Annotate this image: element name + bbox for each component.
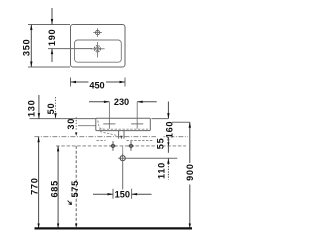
rim band line <box>78 125 96 127</box>
dimension 685 arrow down <box>57 224 59 228</box>
hidden bowl outline (front view) <box>98 121 104 130</box>
svg-text:450: 450 <box>89 80 104 90</box>
dimension 230 line left <box>89 101 109 103</box>
svg-text:55: 55 <box>156 138 166 150</box>
dimension 160 upper arrow line <box>167 102 169 119</box>
drain stub left <box>118 131 120 139</box>
fixing hole extension line right <box>136 102 138 129</box>
svg-text:190: 190 <box>47 29 57 46</box>
svg-text:160: 160 <box>165 121 175 138</box>
dimension 230 arrow right <box>104 101 110 103</box>
svg-text:50: 50 <box>46 103 56 115</box>
dimension 110 arrow up line <box>167 158 169 179</box>
dimension 575 slant arrow <box>68 201 72 205</box>
fixing cross right <box>131 123 143 125</box>
dimension 450 right extension bar <box>124 78 126 87</box>
dimension 450 arrow right <box>120 81 126 83</box>
dimension 350 arrow up <box>30 25 32 31</box>
dimension 55 arrow up <box>167 137 169 141</box>
dimension 150 line left <box>93 193 113 195</box>
extension line bottom edge (plan view) <box>28 66 70 68</box>
dimension 450 line <box>71 81 89 83</box>
dimension 770 arrow down <box>37 224 39 228</box>
svg-text:685: 685 <box>50 180 60 197</box>
dimension 450 arrow left <box>71 81 77 83</box>
dimension 130 line <box>38 95 40 119</box>
dimension 150 arrow left <box>132 193 138 195</box>
900 reference line <box>170 121 190 123</box>
svg-text:770: 770 <box>30 177 40 194</box>
outlet circle <box>120 156 125 161</box>
overflow level dash-dot line <box>34 136 188 138</box>
dimension 575 dashed line <box>75 146 77 228</box>
dimension 55 label <box>156 135 163 149</box>
extension line top edge (plan view) <box>28 24 70 26</box>
svg-text:900: 900 <box>185 163 195 180</box>
dimension 190 arrow down <box>51 19 53 25</box>
rim extension line right (front view) <box>152 118 169 120</box>
dimension 55 line <box>167 137 169 153</box>
extension line drain centre (plan view) <box>48 48 92 50</box>
dimension 150 left bar <box>112 189 114 199</box>
dimension 55 arrow down <box>167 142 169 146</box>
dimension 160 arrow down <box>167 113 169 119</box>
svg-text:30: 30 <box>66 118 76 130</box>
faucet hole <box>96 30 100 34</box>
dimension 190 lower arrow line <box>51 49 53 62</box>
dimension 50 arrow down <box>54 113 56 119</box>
basin inner bowl (plan view) <box>75 40 122 62</box>
dimension 230 arrow left <box>137 101 143 103</box>
dimension 190 arrow up <box>51 49 53 55</box>
svg-text:230: 230 <box>114 97 129 107</box>
bolt level dashed line <box>56 145 186 147</box>
outlet axis line upper <box>122 146 124 155</box>
drain stub right <box>123 131 125 139</box>
dimension 150 label <box>115 190 131 199</box>
dimension 575 arrow down <box>75 224 77 228</box>
drain outlet arrow <box>120 136 122 140</box>
dimension 160 label <box>165 121 172 136</box>
dimension 30 arrow down <box>75 132 77 136</box>
dimension 50 line <box>55 97 57 119</box>
dimension 900 arrow down <box>189 224 191 228</box>
basin outline (front view) <box>96 118 151 130</box>
dimension 150 arrow right <box>108 193 114 195</box>
dimension 110 arrow up <box>167 158 169 164</box>
hidden bowl bottom dashed line <box>99 128 150 130</box>
outlet axis line down <box>122 163 124 190</box>
dimension 900 line <box>189 122 191 163</box>
hidden underside dashed line left <box>97 140 106 142</box>
hidden underside dashed line right <box>127 140 153 142</box>
drain hole <box>94 46 100 52</box>
dimension 150 line right <box>132 193 152 195</box>
dimension 770 line <box>38 137 40 228</box>
dimension 130 arrow down <box>38 113 40 119</box>
outlet level line right <box>127 157 177 159</box>
dimension 685 line <box>57 146 59 228</box>
bolt cross right <box>129 144 132 147</box>
dimension 350 line <box>30 25 32 68</box>
svg-text:110: 110 <box>157 162 167 179</box>
dimension 450 left extension bar <box>70 78 72 87</box>
dimension 770 arrow up <box>37 137 39 143</box>
rim extension line left (front view) <box>30 118 96 120</box>
bolt cross left <box>111 144 114 147</box>
fixing hole extension line left <box>108 102 110 129</box>
basin outer rim (plan view) <box>71 25 126 68</box>
dimension 150 right bar <box>131 189 133 199</box>
dimension 190 upper arrow line <box>51 8 53 25</box>
dimension 230 line right <box>137 101 157 103</box>
svg-text:150: 150 <box>115 190 130 200</box>
fixing cross left <box>103 123 115 125</box>
dimension 900 arrow up <box>189 122 191 128</box>
dimension 350 arrow down <box>30 62 32 68</box>
dimension 30 dotted line <box>75 117 77 131</box>
svg-text:350: 350 <box>21 39 31 56</box>
svg-text:130: 130 <box>27 100 37 117</box>
floor line <box>35 227 193 229</box>
svg-text:575: 575 <box>70 180 80 197</box>
hidden funnel dashed line <box>100 132 118 136</box>
dimension 685 arrow up <box>57 146 59 152</box>
